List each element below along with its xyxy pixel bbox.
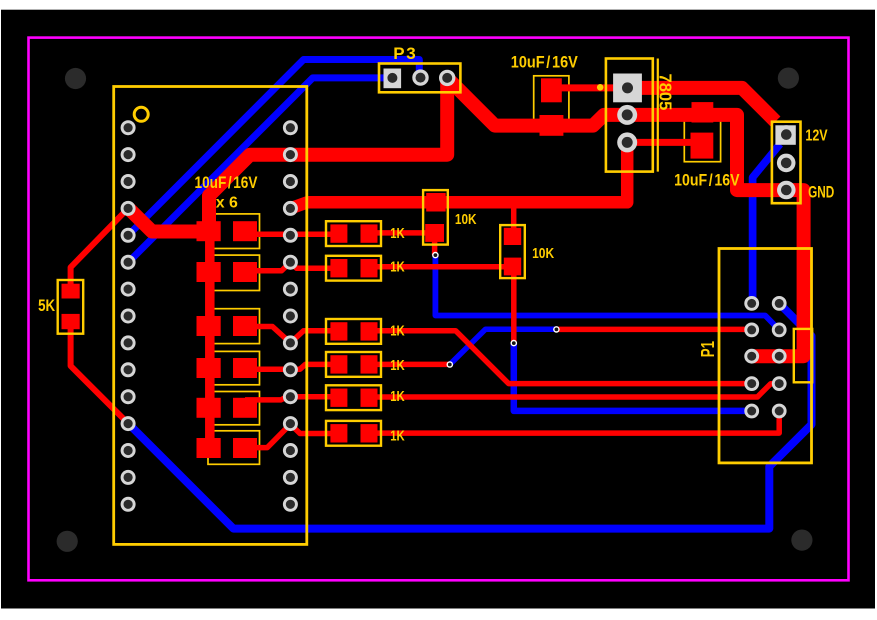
svg-text:7805: 7805 [655, 74, 675, 111]
svg-text:1K: 1K [390, 356, 405, 373]
svg-text:1K: 1K [390, 427, 405, 444]
svg-text:10uF/16V: 10uF/16V [674, 171, 740, 189]
svg-text:10K: 10K [455, 211, 477, 227]
svg-text:1K: 1K [390, 387, 405, 404]
svg-text:1K: 1K [390, 322, 405, 339]
svg-text:12V: 12V [805, 127, 828, 145]
svg-text:1K: 1K [390, 225, 405, 242]
svg-text:10uF/16V: 10uF/16V [511, 53, 578, 71]
svg-text:P1: P1 [698, 341, 719, 357]
svg-text:x 6: x 6 [216, 195, 238, 212]
svg-text:GND: GND [808, 183, 834, 202]
svg-text:P3: P3 [393, 44, 417, 63]
svg-text:10K: 10K [532, 245, 554, 262]
svg-text:1K: 1K [390, 258, 405, 275]
svg-text:5K: 5K [38, 296, 55, 315]
